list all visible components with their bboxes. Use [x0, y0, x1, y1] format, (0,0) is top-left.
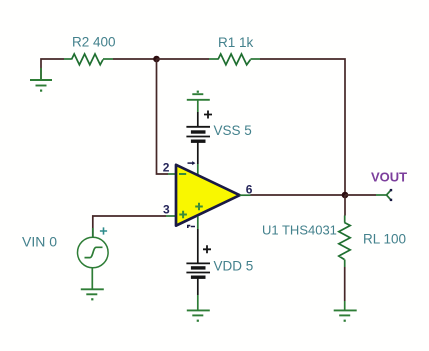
wire R1 to output node	[260, 59, 345, 195]
wire top-left from ground to R2	[41, 59, 64, 80]
wire node VOUT to output pin	[345, 194, 376, 196]
op-amp U1 inverting input lead	[168, 173, 176, 175]
source VIN	[78, 227, 109, 267]
ground GND5 (below VIN)	[81, 268, 104, 301]
op-amp U1 output lead	[240, 194, 251, 196]
svg-text:R1 1k: R1 1k	[218, 35, 254, 50]
op-amp U1	[176, 161, 240, 228]
wire R2 to node A	[113, 58, 157, 60]
wire VIN to pin 3	[93, 216, 166, 237]
output pin VOUT terminal	[376, 189, 392, 201]
svg-text:VIN 0: VIN 0	[22, 233, 57, 249]
ground GND4 (below RL)	[334, 301, 357, 322]
svg-text:R2 400: R2 400	[72, 35, 116, 50]
node A junction dot	[153, 56, 160, 63]
wire output to node VOUT	[251, 194, 346, 196]
svg-text:VDD 5: VDD 5	[214, 259, 254, 274]
wire op-amp to VDD	[197, 229, 199, 263]
ground GND3 (below VDD)	[187, 295, 210, 322]
wire node A to R1	[157, 58, 210, 60]
op-amp U1 negative supply lead	[197, 217, 199, 230]
resistor R1	[209, 54, 260, 65]
wire node A down to pin 2	[157, 59, 169, 174]
resistor RL	[339, 216, 350, 268]
op-amp U1 positive supply lead	[197, 164, 199, 176]
resistor R2	[64, 54, 113, 65]
svg-text:U1 THS4031: U1 THS4031	[262, 223, 337, 238]
svg-text:VOUT: VOUT	[371, 169, 407, 184]
node VOUT junction dot	[342, 192, 349, 199]
wire node VOUT down to RL	[344, 195, 346, 216]
ground GND2 (flipped, above VSS)	[187, 91, 210, 112]
svg-text:RL 100: RL 100	[363, 231, 406, 246]
wire RL to ground	[344, 267, 346, 301]
op-amp U1 non-inverting input lead	[166, 215, 176, 217]
svg-text:3: 3	[163, 203, 170, 217]
svg-text:VSS 5: VSS 5	[214, 123, 252, 138]
ground GND1 (left)	[30, 68, 52, 92]
svg-text:2: 2	[163, 161, 170, 175]
battery VSS	[186, 111, 212, 165]
battery VDD	[186, 245, 211, 295]
